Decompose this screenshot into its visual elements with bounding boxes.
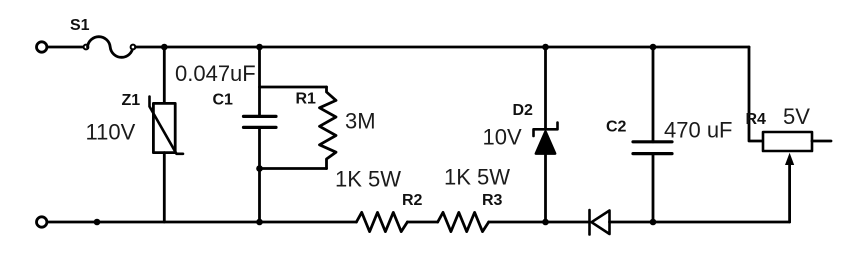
zener D2 lead bottom [544, 154, 547, 223]
svg-text:S1: S1 [70, 17, 90, 34]
wire C2 branch top [652, 47, 655, 142]
diode D1 cathode bar [588, 210, 591, 235]
svg-text:R4: R4 [746, 111, 767, 128]
wire diode to arrow corner [610, 221, 790, 224]
R4 wiper arrowhead [785, 153, 794, 165]
svg-text:110V: 110V [86, 120, 136, 145]
svg-text:R2: R2 [402, 192, 423, 209]
wire R1 branch top [260, 86, 327, 89]
svg-text:10V: 10V [483, 125, 522, 150]
diode D1 triangle [592, 211, 610, 235]
junction node bottom D2 [542, 219, 549, 226]
svg-text:1K 5W: 1K 5W [444, 165, 510, 190]
switch S1 contact left [84, 45, 89, 50]
resistor R2 zigzag [356, 212, 407, 231]
wire C1 branch top [258, 47, 261, 116]
terminal top-left [37, 42, 47, 52]
svg-text:5V: 5V [783, 104, 810, 129]
zener D2 triangle [536, 132, 555, 154]
wire top rail [164, 46, 749, 49]
switch S1 blade [88, 37, 133, 58]
wire C2 branch bottom [652, 154, 655, 222]
varistor Z1 diagonal [150, 97, 184, 154]
svg-text:0.047uF: 0.047uF [175, 61, 256, 86]
svg-text:R1: R1 [296, 91, 317, 108]
junction node bottom C1 [256, 219, 263, 226]
svg-text:1K 5W: 1K 5W [335, 167, 401, 192]
varistor Z1 body [153, 103, 175, 152]
wire bottom rail left [48, 221, 357, 224]
junction node top C1 [256, 44, 263, 51]
wire R1 branch bottom [260, 167, 327, 170]
resistor R1 zigzag [320, 87, 337, 169]
svg-text:R3: R3 [482, 192, 503, 209]
junction node bottom left [94, 219, 101, 226]
wire top-left to switch [48, 46, 84, 49]
terminal bottom-left [37, 217, 47, 227]
varistor Z1 lead top [163, 47, 166, 103]
wire right drop to R4 [749, 47, 763, 141]
potentiometer R4 body [763, 132, 812, 151]
varistor Z1 lead bottom [163, 153, 166, 222]
svg-text:3M: 3M [345, 109, 376, 134]
svg-text:C2: C2 [606, 119, 627, 136]
wire switch to node A [136, 46, 165, 49]
switch S1 contact right [131, 45, 136, 50]
wire between R2 and R3 [407, 221, 437, 224]
capacitor C2 plate bottom [633, 152, 672, 155]
capacitor C1 plate bottom [244, 126, 277, 129]
wire R4 right [812, 140, 831, 143]
wire C1 branch bottom [258, 127, 261, 222]
capacitor C2 plate top [633, 140, 672, 143]
zener D2 cathode bar [534, 123, 558, 137]
svg-text:Z1: Z1 [122, 92, 141, 109]
junction node top C2 [650, 44, 657, 51]
junction node R1 bottom [256, 165, 263, 172]
svg-text:C1: C1 [213, 92, 234, 109]
svg-text:470 uF: 470 uF [664, 118, 733, 143]
capacitor C1 plate top [244, 115, 277, 118]
junction node bottom C2 [650, 219, 657, 226]
junction node top Z1 [161, 44, 168, 51]
junction node top D2 [542, 44, 549, 51]
wire R3 to diode [489, 221, 590, 224]
R4 wiper arrow shaft [788, 163, 791, 222]
zener D2 lead top [544, 47, 547, 129]
resistor R3 zigzag [438, 212, 489, 231]
svg-text:D2: D2 [513, 102, 534, 119]
